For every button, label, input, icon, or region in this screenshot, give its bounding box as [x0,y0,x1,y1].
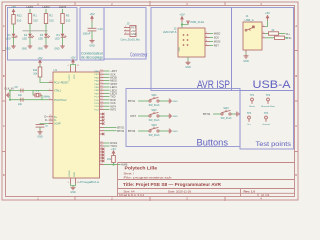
section box LEDs [8,8,78,61]
svg-text:J3: J3 [127,21,130,25]
svg-text:LED3: LED3 [59,5,67,9]
resistor R3 [61,14,71,24]
svg-text:D-: D- [45,118,48,122]
power +5V LED column [11,5,16,14]
wire BTN2 to switch [213,113,221,115]
connector J3 body [130,26,136,37]
title block divider id [257,193,259,196]
frame column tick top 2 [149,1,151,7]
svg-text:GND: GND [5,47,11,50]
ISP pin SCK [205,36,219,40]
resistor R12 [12,14,22,25]
svg-text:LED: LED [38,37,43,40]
IC pin PB0 with wire and net label ~RST [95,69,118,73]
ground U1 [70,187,76,195]
frame row tick right C/D [295,151,299,153]
title block line below title [118,188,295,190]
wire R2 to D3 [45,24,47,34]
svg-text:BTN1: BTN1 [128,99,136,103]
wire +5V to R11 [39,65,41,67]
svg-text:de découplage: de découplage [81,55,103,59]
svg-text:GND: GND [37,136,43,139]
frame column tick bottom 1 [74,197,76,201]
IC pin with wire and net label BTN2 [100,126,125,130]
wire GND pins join [71,184,76,186]
svg-text:B: B [3,74,5,78]
wire switch SW1 to ground [159,100,168,102]
wire switch SW2 to ground [159,115,168,117]
resistor R2 [44,14,54,24]
frame column tick bottom 2 [149,197,151,202]
ground LED column 2 [22,45,33,51]
frame row letters left [3,24,5,177]
wire R11 to RESET pin [40,77,49,83]
svg-text:ATmega8U2-A: ATmega8U2-A [79,180,99,184]
svg-text:BTN2: BTN2 [203,112,211,116]
power +5V USB [265,11,270,20]
svg-text:GND: GND [54,47,60,50]
svg-text:SW1: SW1 [151,94,157,97]
IC pin PC6 with wire and net label RXD [94,98,115,102]
svg-text:PC1/~RESET: PC1/~RESET [54,82,69,85]
svg-text:D-: D- [289,36,292,40]
LED D1 [6,34,18,41]
switch SW3 SW_Push [149,124,160,137]
svg-text:VCC: VCC [179,46,181,51]
wire label to R2 [45,9,47,14]
svg-text:A: A [295,24,297,28]
svg-text:GND: GND [173,131,178,133]
ground SW2 [168,114,178,119]
svg-text:U1: U1 [54,68,58,72]
IC pin PB4 with wire and net label SPDT [95,82,118,86]
svg-text:D: D [3,173,5,177]
wire C10 to GND [91,31,93,39]
LED D2 [22,34,34,41]
IC pin PC5 with wire and net label XCK [94,101,115,105]
IC pin PB2 with wire and net label MOSI [95,76,118,80]
svg-text:TP3: TP3 [247,112,252,115]
svg-text:AVR ISP: AVR ISP [197,79,230,91]
IC pin with wire and net label BTN3 [100,129,125,133]
IC pin XTAL1 [49,89,62,93]
title block outline [118,163,295,197]
svg-text:TP4: TP4 [264,112,269,115]
USB pin D- [262,36,265,38]
svg-text:22p: 22p [18,94,23,97]
wire caps to GND [9,91,11,100]
section box connector [104,8,146,60]
wire junction to PWR_FLAG [182,24,188,25]
wire VBUS to +5V [265,21,268,27]
wire BTN3 to switch [138,130,149,132]
IC pin PC7 with wire and net label TXD [94,95,115,99]
IC U1 body [53,72,100,178]
resistor R8 [107,156,115,163]
svg-text:Date: 2025-11-26: Date: 2025-11-26 [168,189,191,193]
ground SW3 [168,129,178,134]
wire XTAL1 net [10,91,33,96]
IC pin no-connect [100,156,105,159]
svg-text:100nF: 100nF [83,32,91,36]
svg-text:LED2: LED2 [42,5,50,9]
wire J2 to GND [187,57,189,61]
svg-text:AVR-ISP-6: AVR-ISP-6 [163,30,177,34]
svg-text:R1: R1 [33,14,37,18]
wire +5V to J2 [181,22,183,28]
switch SW1 SW_Push [149,94,160,107]
wire D1 to GND [13,37,15,45]
section box USB-A [232,8,294,91]
frame column numbers top [37,2,262,6]
power +5V U1 [70,56,75,64]
svg-text:GND: GND [131,33,137,36]
svg-text:510: 510 [33,18,38,22]
USB connector J1 body [243,22,262,50]
USB pin D+ [262,32,265,34]
test point TP2 [261,94,275,108]
svg-text:LED: LED [22,37,27,40]
svg-text:B: B [295,74,297,78]
svg-text:LED: LED [6,37,11,40]
wire D- to R10 [265,37,275,39]
svg-text:SW2: SW2 [151,109,157,112]
svg-text:D: D [295,173,297,177]
svg-text:BTN3: BTN3 [128,129,136,133]
USB pin VBUS [262,25,265,27]
resistor R10 [275,36,290,40]
section box AVR ISP [151,8,232,91]
wire D+ to R9 [265,33,269,35]
connector J3 pin 2 [124,29,136,33]
IC pin no-connect [100,147,105,150]
svg-text:LED: LED [55,37,60,40]
svg-text:File: programmateur.sch: File: programmateur.sch [124,175,172,179]
svg-text:VCC: VCC [74,74,76,79]
ground SW1 [168,99,178,104]
IC pin PC2 with wire and net label INT5 [94,108,116,112]
svg-text:RST: RST [131,114,137,118]
svg-text:UVCC: UVCC [69,74,71,81]
wire label to R1 [29,9,31,14]
svg-text:TP2: TP2 [266,94,271,97]
frame row letters right [295,24,297,177]
svg-text:Connecteur: Connecteur [130,53,148,59]
ISP connector J2 body [178,28,205,57]
ground crystal caps [6,93,10,98]
svg-text:C: C [295,124,297,128]
power +5V HWB [111,147,116,155]
IC pin PB3 with wire and net label MISO [95,79,117,83]
svg-text:INT5: INT5 [110,108,116,112]
svg-text:USB-A: USB-A [253,79,292,91]
IC pin ~RESET [49,81,70,85]
svg-text:UCAP: UCAP [54,123,61,126]
capacitor C8 [15,86,24,97]
wire shield to GND [245,53,247,55]
IC pin no-connect [100,159,105,162]
wire +5V stem [72,63,74,66]
ground C10 [89,39,95,47]
svg-text:XTAL1: XTAL1 [54,90,62,93]
junction XTAL2-C9 [9,99,11,101]
LED D4 [55,34,67,41]
IC pin PC4 with wire and net label INT4 [94,104,116,108]
svg-text:Title: Projet PSE S8 — Program: Title: Projet PSE S8 — Programmateur AVR [123,182,222,187]
svg-text:BTN3: BTN3 [117,129,124,133]
power +5V ISP [179,13,184,22]
test point TP1 [249,94,255,108]
IC pin PB5 with wire and net label LED1 [95,85,118,89]
resistor R9 [269,29,279,35]
title block line above kicad row [118,192,295,194]
connector J3 pin 1 [124,26,136,30]
junction XTAL1-C8 [9,90,11,92]
switch SW2 SW_Push [149,109,160,122]
IC pin no-connect [100,116,105,118]
svg-text:KiCad E.D.A. 5.0.2: KiCad E.D.A. 5.0.2 [119,193,145,197]
svg-text:Polytech Lille: Polytech Lille [125,166,158,171]
wire R10 to D- label [285,37,289,39]
title block line above title [118,179,295,181]
section box Test points [240,91,294,150]
page frame outer border [2,2,298,200]
svg-text:R2: R2 [49,14,53,18]
svg-text:PWR_FLAG: PWR_FLAG [191,21,205,24]
svg-text:SW3: SW3 [151,124,157,127]
wire C7 to GND [39,127,41,130]
wire +5V to R8 [113,154,115,157]
IC pin with wire and net label RXD1 [100,141,118,145]
svg-text:MOSI: MOSI [214,40,221,44]
svg-text:TP1: TP1 [250,94,255,97]
IC pin GND bottom [68,178,80,184]
frame column numbers bottom [37,197,262,201]
svg-text:R12: R12 [17,14,22,18]
page frame inner border [6,6,295,197]
crystal Y1 [33,90,51,99]
section box decoupling capacitor [80,8,104,61]
svg-text:SW_Push: SW_Push [221,117,232,120]
svg-text:GND: GND [70,191,76,194]
IC pin no-connect [100,153,105,156]
svg-text:UGND: UGND [69,170,71,177]
svg-text:510: 510 [66,18,71,22]
capacitor C9 [18,98,23,106]
frame row tick right B/C [295,100,299,102]
wire HWB [104,164,121,166]
IC pin PB7 with wire and net label LED3 [95,92,118,96]
svg-text:SCK: SCK [214,36,220,40]
IC pin no-connect [100,122,105,124]
wire switch SW3 to ground [159,130,168,132]
svg-text:22p: 22p [18,103,23,106]
svg-text:Manuele Boot: Manuele Boot [261,105,275,108]
wire D2 to GND [29,37,31,45]
svg-text:A: A [3,24,5,28]
power flag PWR_FLAG [187,21,205,24]
svg-text:USB_A: USB_A [245,18,254,22]
svg-text:LED1: LED1 [26,5,34,9]
svg-text:Buttons: Buttons [197,137,229,147]
svg-text:GND: GND [185,66,191,69]
USB logo glyph [245,26,254,31]
IC pin PB1 with wire and net label SCK [95,72,116,76]
svg-text:CLK_IN: CLK_IN [4,87,13,91]
IC pin HWB [100,163,105,165]
wire switch SW4 to ground [231,113,235,115]
note line in LED block [23,30,48,32]
svg-text:Ground: Ground [262,123,270,126]
frame row tick left C/D [2,151,6,153]
frame column tick top 1 [74,2,76,6]
test point TP3 [247,112,252,126]
svg-text:+5V: +5V [265,11,270,15]
wire XTAL2 to IC [42,99,49,101]
capacitor C10 [83,27,104,36]
junction HWB [113,164,115,166]
svg-text:Id: 1/1: Id: 1/1 [261,193,270,197]
wire D3 to GND [45,37,47,45]
svg-text:510: 510 [17,18,22,22]
frame column tick bottom 3 [224,197,226,202]
switch SW4 SW_Push [221,107,232,120]
ground C7 [37,131,43,139]
svg-text:Conn_01x03_Ma: Conn_01x03_Ma [120,39,140,42]
svg-text:Reset: Reset [249,105,255,108]
ISP pin MISO [205,32,220,36]
wire R1 to D2 [29,24,31,34]
svg-text:510: 510 [49,18,54,22]
frame row tick left B/C [2,100,6,102]
frame row tick left A/B [2,50,6,52]
svg-text:GND: GND [173,116,178,118]
svg-text:D+: D+ [44,115,48,119]
wire R3 to D4 [62,24,64,34]
connector J3 pin 3 [124,33,137,37]
IC pin VCC top [68,65,80,72]
wire XTAL2 net [10,95,42,100]
wire VCC pins to +5V [71,65,76,67]
IC pin XTAL2 [49,98,68,102]
ground LED column 1 [5,45,16,51]
wire label to R3 [62,9,64,14]
ground SW4 [236,112,240,117]
resistor R1 [28,14,38,24]
ISP connector pin dots [183,34,189,46]
IC pin no-connect [100,150,105,153]
wire R9 to D+ label [279,33,286,35]
wire R8 to HWB [113,163,115,165]
IC pin with wire and net label TXD1 [100,144,118,148]
wire R12 to D1 [13,24,15,34]
IC pin no-connect [100,133,105,135]
svg-text:SW_Push: SW_Push [149,134,160,137]
power +5V C10 [89,12,94,22]
IC pin UCAP [49,122,62,126]
ground USB [243,55,249,63]
svg-text:GND: GND [38,47,44,50]
svg-text:RST: RST [214,44,220,48]
svg-text:Test points: Test points [256,141,292,148]
ground J2 [185,61,191,69]
ISP pin MOSI [205,40,221,44]
ground LED column 4 [54,45,65,51]
title block divider rev [240,189,242,197]
wire RST to switch [138,115,149,117]
IC pin no-connect [100,119,105,121]
test point TP4 [262,112,270,126]
svg-text:C: C [3,124,5,128]
wire GND stem [72,186,74,187]
svg-text:R3: R3 [66,14,70,18]
svg-text:Rev: 1.0: Rev: 1.0 [244,189,256,193]
frame row tick right A/B [295,50,299,52]
svg-text:SW_Push: SW_Push [149,119,160,122]
IC pin D+ [49,115,58,119]
svg-text:GND: GND [74,172,76,177]
ISP pin RST [205,44,219,48]
svg-text:R11: R11 [33,69,38,72]
capacitor C7 [36,125,49,128]
svg-text:GND: GND [243,60,249,63]
junction ISP power [181,23,183,25]
LED D3 [38,34,50,41]
svg-text:GND: GND [89,44,95,47]
wire +5V to C10 [91,22,93,29]
ground LED column 3 [38,45,49,51]
section box Buttons [126,89,240,147]
IC pin D- [49,118,57,122]
wire BTN1 to switch [138,100,149,102]
power +5V R11 [37,56,42,65]
IC pin PB6 with wire and net label LED2 [95,88,118,92]
wire UCAP [40,123,49,126]
svg-text:SW4: SW4 [223,107,229,110]
svg-text:MISO: MISO [214,32,221,36]
IC pin no-connect [100,113,105,115]
resistor R11 [33,67,42,77]
wire XTAL1 to IC [33,90,49,92]
USB pin shield [245,50,247,53]
frame column tick top 3 [224,2,226,6]
svg-text:PC0/XTAL2: PC0/XTAL2 [54,99,67,102]
wire D4 to GND [62,37,64,45]
svg-text:SW_Push: SW_Push [149,104,160,107]
svg-text:C10: C10 [98,27,104,31]
svg-text:GND: GND [22,47,28,50]
svg-text:GND: GND [173,101,178,103]
